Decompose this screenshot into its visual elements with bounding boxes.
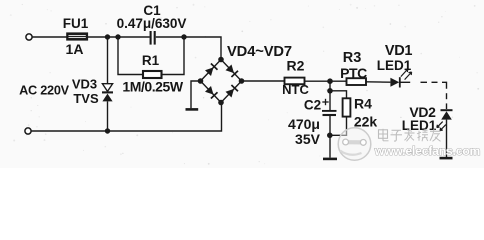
wire top rail: fuse to C1 [87, 36, 149, 38]
svg-text:R2: R2 [287, 57, 305, 73]
svg-text:1A: 1A [66, 41, 84, 57]
diode VD4 (left to top) [205, 67, 214, 76]
wire R3 to LED1 [366, 81, 390, 83]
node: VD3 branch junction [105, 34, 110, 39]
wire VD3 branch lower [107, 101, 109, 131]
svg-text:VD1: VD1 [385, 43, 413, 59]
wire top rail: terminal to fuse [32, 36, 67, 38]
wire LED1 out solid stub [400, 81, 410, 83]
ground C2 R4 [323, 158, 337, 161]
wire C2 branch upper [329, 81, 331, 110]
wire VD3 branch upper [107, 37, 109, 84]
capacitor C1 [151, 31, 155, 45]
svg-text:R1: R1 [142, 53, 160, 68]
svg-text:AC 220V: AC 220V [19, 84, 70, 98]
svg-text:VD4~VD7: VD4~VD7 [227, 44, 292, 60]
svg-text:PTC: PTC [340, 65, 367, 81]
svg-text:C2: C2 [304, 98, 321, 113]
plus sign C2 [322, 99, 328, 105]
capacitor C2 electrolytic [322, 111, 337, 115]
wire VD2 to ground [446, 120, 448, 157]
fuse FU1 [67, 33, 87, 40]
terminal input top [26, 34, 32, 40]
diode VD7 (bottom to right) [226, 89, 235, 98]
wire R4 branch bottom [330, 117, 347, 136]
node: VD3 bottom junction [105, 128, 110, 133]
svg-text:FU1: FU1 [63, 16, 89, 31]
svg-text:www.elecfans.com: www.elecfans.com [374, 144, 481, 158]
wire bottom rail to bridge bottom corner [31, 103, 221, 132]
wire R1 parallel loop right side [162, 37, 185, 75]
node: R1 loop left junction [115, 34, 120, 39]
svg-text:TVS: TVS [73, 91, 99, 106]
diode VD6 (left to bottom) [205, 86, 214, 95]
node bridge left vertex [198, 78, 204, 84]
TVS diode VD3 [102, 84, 113, 102]
svg-text:1M/0.25W: 1M/0.25W [122, 79, 183, 95]
svg-text:35V: 35V [295, 131, 321, 147]
wire bridge to R2 [242, 80, 285, 82]
watermark CJK characters [379, 129, 441, 142]
watermark logo circle [338, 128, 371, 161]
wire top rail: C1 to bridge top corner [156, 37, 221, 60]
svg-text:VD3: VD3 [72, 76, 97, 91]
svg-text:R3: R3 [343, 50, 362, 66]
wire C2 branch lower [329, 116, 331, 158]
node R4 branch junction [327, 88, 333, 94]
ground bridge negative [186, 108, 199, 111]
resistor R3 PTC [347, 78, 367, 85]
LED VD2 [437, 110, 453, 130]
dashed wire vertical [446, 93, 448, 109]
node C2 R4 bottom junction [327, 133, 333, 139]
diode VD5 (top to right) [226, 65, 235, 74]
resistor R4 [343, 98, 351, 116]
svg-text:0.47μ/630V: 0.47μ/630V [117, 16, 187, 31]
resistor R2 NTC [285, 78, 305, 85]
wire R1 parallel loop left side [118, 37, 143, 75]
ground VD2 [440, 157, 453, 160]
svg-text:LED1: LED1 [377, 58, 412, 73]
svg-text:NTC: NTC [282, 82, 309, 97]
node bridge right vertex [239, 78, 245, 84]
svg-text:R4: R4 [354, 96, 372, 112]
LED VD1 [390, 69, 411, 88]
node: R1 loop right junction [181, 34, 186, 39]
node C2 top junction [327, 78, 333, 84]
node bridge bottom vertex [218, 100, 224, 106]
wire DC minus stub [191, 81, 201, 108]
wire R4 branch top [330, 91, 347, 99]
wire R2 to R3 [305, 80, 347, 82]
bridge rectifier VD4~VD7 frame [201, 60, 242, 103]
terminal input bottom [25, 128, 31, 134]
resistor R1 [143, 71, 162, 78]
svg-text:470μ: 470μ [288, 116, 320, 132]
node bridge top vertex [218, 57, 224, 63]
svg-text:LED1: LED1 [402, 118, 437, 133]
dashed wire horizontal [421, 82, 447, 89]
